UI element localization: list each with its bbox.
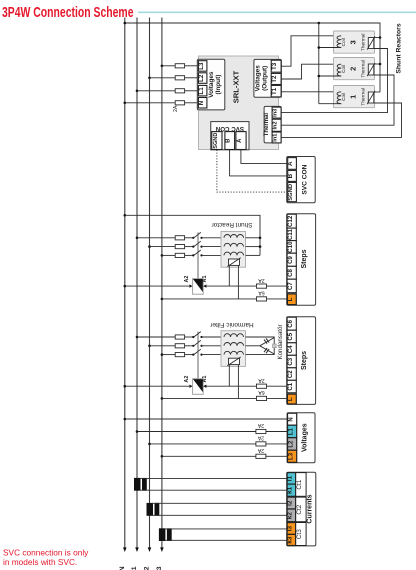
wire filter-step cap top (246, 337, 275, 355)
fuse filter-step 2A (256, 384, 266, 388)
terminal C4 (287, 343, 296, 356)
svg-text:6A: 6A (258, 389, 265, 395)
terminal N input (198, 98, 207, 109)
fuse input N (175, 101, 184, 105)
fuse input L2 (175, 76, 184, 80)
wire coil2 bottom to bus (319, 75, 341, 77)
svg-text:6A: 6A (258, 290, 265, 296)
wire filter-step L3 to L (161, 397, 288, 400)
wire coil1 bottom to bus (319, 103, 341, 105)
svg-text:L2: L2 (198, 74, 205, 82)
svg-text:C10: C10 (287, 241, 294, 253)
terminal A internal (236, 132, 246, 150)
wire k3 l3 (165, 529, 287, 540)
svg-text:l3: l3 (287, 526, 294, 532)
svg-text:k3: k3 (287, 536, 294, 544)
svg-text:C2: C2 (287, 370, 294, 378)
wire bus L2 (149, 18, 151, 549)
svg-text:Coil: Coil (341, 38, 347, 46)
label filter-step 2A (258, 377, 265, 383)
svg-text:T2: T2 (271, 75, 278, 83)
terminal C11 (287, 228, 296, 241)
label shunt-step 6A (258, 290, 265, 296)
wire thermal3 bottom to In (281, 49, 387, 113)
label Voltages Output (255, 65, 269, 92)
coil 1 (337, 92, 341, 104)
contactor coil shunt-step (193, 279, 204, 295)
label Ct3 (296, 523, 306, 546)
label SVC CON external (302, 164, 309, 194)
svg-text:(Output): (Output) (262, 66, 269, 91)
svg-text:Thermal: Thermal (360, 88, 366, 106)
terminal block Thermal (264, 106, 281, 142)
svg-text:2A: 2A (258, 277, 265, 283)
contactor contact shunt-step L1 (192, 232, 202, 239)
shunt reactor unit 2 box (334, 58, 375, 80)
svg-text:SVC connection is only: SVC connection is only (3, 547, 89, 557)
svg-text:Coil: Coil (341, 65, 347, 73)
terminal block Voltages Output (254, 59, 281, 97)
terminal L2 input (198, 73, 207, 84)
svg-text:Steps: Steps (301, 249, 308, 268)
label fuse 2A input (173, 105, 179, 112)
label L2 (144, 566, 151, 570)
svg-text:L2: L2 (288, 440, 294, 448)
node coil2 bus (318, 75, 321, 78)
terminal B external (287, 170, 296, 181)
wire T2 to coil2 (281, 64, 341, 79)
wire filter-step contact to coil L1 (202, 336, 225, 338)
svg-text:1: 1 (348, 95, 357, 99)
contactor contact shunt-step L3 (192, 250, 202, 257)
inductor filter-step 2 (224, 343, 244, 346)
svg-text:2: 2 (348, 67, 357, 71)
wire L3 to SRL input (161, 65, 198, 68)
svg-text:k1: k1 (287, 486, 294, 494)
terminal C9 (287, 253, 296, 266)
wire filter-step thermal left lead (228, 365, 230, 387)
node thermal3 tap (379, 36, 382, 39)
wire L1 to SRL input (136, 90, 198, 93)
svg-text:N: N (288, 417, 294, 421)
svg-text:k2: k2 (287, 512, 294, 520)
label filter-step A2 (184, 376, 190, 383)
label filter-step A1 (202, 376, 208, 383)
contactor contact shunt-step L2 (192, 241, 202, 248)
fuse filter-step L2 (175, 344, 184, 348)
wire coil3 bottom to bus (319, 47, 341, 49)
CT1 (134, 478, 147, 491)
label Thermal unit 1 (360, 88, 366, 106)
svg-text:C12: C12 (287, 215, 294, 227)
label Thermal unit 2 (360, 60, 366, 78)
terminal L3 input (198, 61, 207, 71)
terminal L2 voltages (288, 438, 297, 451)
terminal L step (287, 394, 296, 404)
reactor block filter-step box (221, 331, 246, 367)
wire thermal3 top (374, 37, 380, 39)
wire k2 l2 (152, 503, 287, 515)
svg-text:In3: In3 (273, 109, 279, 117)
terminal C7 (287, 279, 296, 293)
wire filter-step thermal right lead (237, 365, 239, 399)
wire shunt-step contact to coil L2 (202, 246, 225, 248)
fuse shunt-step 2A (256, 284, 266, 288)
reactor block shunt-step box (221, 232, 246, 268)
fuse input L1 (175, 89, 184, 93)
contactor coil filter-step (193, 379, 204, 395)
label filter-step (209, 321, 253, 328)
svg-text:In2: In2 (273, 121, 279, 129)
fuse shunt-step L1 (175, 236, 184, 240)
svg-text:Shunt Reactor: Shunt Reactor (211, 221, 253, 228)
wire top rail (124, 22, 381, 92)
module Steps box (287, 317, 316, 405)
wire bus L3 (161, 18, 163, 549)
svg-text:2A: 2A (173, 105, 179, 112)
module Steps box (287, 214, 316, 306)
label unit number 3 (348, 40, 357, 44)
terminal N voltages (288, 413, 297, 425)
terminal T2 (271, 73, 281, 84)
svg-text:C4: C4 (287, 345, 294, 353)
svg-text:C7: C7 (287, 282, 294, 290)
svg-text:3P4W Connection Scheme: 3P4W Connection Scheme (2, 4, 134, 21)
svg-text:Thermal: Thermal (360, 60, 366, 78)
CT2 (147, 503, 160, 516)
wire N to SRL input (124, 102, 198, 105)
fuse filter-step L1 (175, 335, 184, 339)
fuse shunt-step 6A (256, 297, 266, 301)
fuse shunt-step L2 (175, 245, 184, 249)
terminal L1 voltages (288, 425, 297, 438)
terminal In3 (272, 107, 281, 118)
label Voltages (301, 423, 308, 452)
arrow L2 (148, 547, 152, 552)
terminal L1 input (198, 85, 207, 96)
terminal l2 (287, 497, 296, 509)
svg-text:SGND: SGND (288, 184, 294, 201)
capacitor delta filter-step (260, 338, 276, 354)
label shunt-step A2 (184, 276, 190, 283)
wire thermal1 top (374, 91, 380, 93)
svg-text:SGND: SGND (213, 133, 219, 149)
thermal overload 2 (367, 63, 375, 76)
svg-text:l1: l1 (287, 475, 294, 481)
svg-text:L1: L1 (198, 87, 205, 95)
arrow L3 (160, 547, 164, 552)
wire L2 to voltages (148, 443, 287, 446)
label fuse L2 2A (257, 435, 264, 441)
svg-text:Thermal: Thermal (360, 34, 366, 52)
wire shunt-step branch L3 (161, 254, 194, 257)
svg-text:Ct1: Ct1 (296, 479, 303, 489)
terminal C6 (287, 317, 296, 330)
wire shunt-step N to A2 (124, 284, 193, 287)
inductor shunt-step 3 (224, 252, 244, 255)
terminal T3 (271, 60, 281, 72)
svg-text:A2: A2 (184, 276, 190, 283)
svg-text:C6: C6 (287, 319, 294, 327)
svg-text:2A: 2A (258, 377, 265, 383)
terminal C10 (287, 241, 296, 254)
terminal B internal (225, 132, 235, 150)
wire shunt-step star line (124, 214, 261, 255)
svg-text:3: 3 (348, 40, 357, 44)
svg-text:In1: In1 (273, 134, 279, 142)
node thermal2 tap (379, 63, 382, 66)
wire shunt-step contact to coil L3 (202, 254, 225, 256)
label shunt-step (211, 221, 253, 228)
svg-text:Harmonic Filter: Harmonic Filter (209, 321, 253, 328)
terminal C2 (287, 368, 296, 381)
label SVC CON internal (215, 125, 244, 132)
svg-text:L3: L3 (198, 62, 205, 70)
label unit number 2 (348, 67, 357, 71)
wire k1 l1 (140, 478, 287, 490)
fuse voltages L2 (256, 442, 266, 446)
svg-text:B: B (226, 138, 232, 143)
svg-text:Ct3: Ct3 (296, 529, 303, 539)
inductor shunt-step 1 (224, 235, 244, 238)
wire shunt-step A1 line (203, 284, 287, 287)
wire filter-step branch L3 (161, 353, 194, 356)
svg-text:Voltages: Voltages (255, 65, 262, 92)
terminal L3 voltages (288, 450, 297, 462)
inductor filter-step 3 (224, 351, 244, 354)
module SVC CON box (287, 157, 316, 203)
inductor filter-step 1 (224, 334, 244, 337)
wire thermal2 top (374, 63, 380, 65)
module Voltages box (287, 413, 315, 463)
thermal overload shunt-step (227, 258, 240, 267)
wire shunt-step coil out 3 (246, 254, 261, 256)
svg-text:Currents: Currents (306, 494, 313, 523)
node rail-coilbus (318, 22, 321, 25)
svg-text:L: L (287, 397, 294, 401)
wire L2 to SRL input (148, 77, 197, 80)
wire thermal1 bottom to In (281, 103, 401, 137)
title (2, 4, 134, 21)
svg-text:Kondansatör: Kondansatör (277, 324, 284, 359)
note SVC models (3, 547, 89, 567)
svg-text:A2: A2 (184, 376, 190, 383)
terminal C3 (287, 355, 296, 368)
fuse filter-step L3 (175, 353, 184, 357)
svg-text:Voltages: Voltages (301, 423, 308, 452)
label Steps (301, 249, 308, 268)
label SRL-XXT (231, 70, 240, 103)
label L3 (156, 566, 163, 570)
shunt reactor unit 3 box (334, 31, 375, 53)
controller SRL-XXT body (199, 56, 279, 150)
wire filter-step branch L2 (148, 345, 193, 348)
wire filter-step contact to coil L2 (202, 345, 225, 347)
wire bus N (124, 18, 126, 549)
terminal l3 (287, 523, 296, 535)
svg-text:SVC CON: SVC CON (215, 125, 244, 132)
svg-text:A1: A1 (202, 376, 208, 383)
label shunt-step A1 (202, 276, 208, 283)
coil 3 (337, 36, 341, 48)
wire T3 to coil3 (281, 36, 341, 66)
thermal overload filter-step (227, 357, 240, 366)
label Thermal block (264, 113, 270, 137)
wire B to SVC CON (230, 150, 287, 176)
svg-text:Voltages: Voltages (208, 71, 215, 98)
label Coil 2 (341, 65, 347, 73)
svg-text:L2: L2 (144, 566, 151, 570)
terminal k2 (287, 509, 296, 522)
fuse input L3 (175, 64, 184, 68)
svg-text:N: N (198, 100, 205, 105)
svg-text:C9: C9 (287, 255, 294, 263)
label Currents (306, 494, 313, 523)
terminal SGND external (288, 182, 297, 201)
CT3 (159, 528, 172, 541)
svg-text:B: B (287, 173, 294, 178)
wire shunt-step branch L2 (148, 245, 193, 248)
terminal C1 (287, 380, 296, 393)
wire bus L1 (136, 18, 138, 549)
node coil3 bus (318, 46, 321, 49)
wire coil common bus (318, 23, 320, 104)
svg-text:SVC CON: SVC CON (302, 164, 309, 194)
coil 2 (337, 64, 341, 76)
wire filter-step branch L1 (136, 336, 194, 339)
fuse voltages L3 (256, 454, 266, 458)
arrow N (123, 547, 127, 552)
label Coil 1 (341, 93, 347, 101)
fuse voltages L1 (256, 429, 266, 433)
wire L1 to voltages (136, 430, 287, 433)
svg-text:Steps: Steps (301, 351, 308, 370)
terminal SGND internal (212, 132, 222, 150)
svg-text:T1: T1 (271, 87, 278, 95)
svg-text:A: A (287, 161, 294, 166)
shunt reactor unit 1 box (334, 86, 375, 108)
wire N to voltages (124, 418, 288, 421)
wire T1 to coil1 (281, 91, 341, 93)
svg-text:L: L (287, 297, 294, 301)
terminal C8 (287, 266, 296, 279)
label filter-step 6A (258, 389, 265, 395)
svg-text:2A: 2A (257, 435, 264, 441)
label Ct1 (296, 473, 306, 497)
label N (119, 566, 126, 570)
svg-text:Coil: Coil (341, 93, 347, 101)
svg-text:(Input): (Input) (215, 75, 222, 95)
svg-text:C3: C3 (287, 357, 294, 365)
contactor contact filter-step L3 (192, 349, 202, 356)
inductor shunt-step 2 (224, 243, 244, 246)
label Voltages Input (208, 71, 222, 98)
svg-text:T3: T3 (271, 62, 278, 70)
wire filter-step cap mid (246, 345, 260, 347)
svg-text:L3: L3 (156, 566, 163, 570)
svg-text:2A: 2A (257, 422, 264, 428)
wire shunt-step coil out 2 (246, 245, 262, 248)
svg-text:C8: C8 (287, 268, 294, 276)
svg-text:l2: l2 (287, 500, 294, 506)
label Thermal unit 3 (360, 34, 366, 52)
label Steps (301, 351, 308, 370)
contactor contact filter-step L2 (192, 340, 202, 347)
wire shunt-step L3 to L (161, 298, 288, 301)
terminal L step (287, 294, 296, 305)
label Ct2 (296, 497, 306, 522)
svg-text:2A: 2A (257, 447, 264, 453)
terminal T1 (271, 85, 281, 97)
terminal In1 (272, 132, 281, 143)
terminal block SVC CON internal (211, 122, 249, 150)
svg-text:in models with SVC.: in models with SVC. (3, 557, 77, 567)
thermal overload 3 (367, 36, 375, 49)
wire shunt-step contact to coil L1 (202, 237, 225, 239)
wire shunt-step thermal right lead (237, 265, 239, 299)
wire shunt-step thermal left lead (228, 265, 230, 286)
label fuse L1 2A (257, 422, 264, 428)
wire shunt-step coil out 1 (246, 237, 262, 240)
svg-text:L1: L1 (131, 566, 138, 570)
module Currents box (287, 472, 316, 546)
wire thermal2 bottom to In (281, 75, 394, 125)
svg-text:L1: L1 (288, 427, 294, 435)
wire filter-step N to A2 (124, 385, 193, 388)
terminal l1 (287, 473, 296, 485)
svg-text:N: N (119, 566, 126, 570)
wire A to SVC CON (241, 150, 287, 164)
label Shunt Reactors (395, 23, 402, 73)
terminal In2 (272, 119, 281, 131)
svg-text:L3: L3 (288, 452, 294, 460)
thermal overload 1 (367, 91, 375, 104)
wire L3 to voltages (161, 455, 288, 458)
svg-text:A: A (237, 138, 243, 143)
terminal C5 (287, 330, 296, 343)
arrow L1 (135, 547, 139, 552)
terminal k3 (287, 534, 296, 545)
contactor linkage shunt-step (197, 232, 199, 278)
wire filter-step contact to coil L3 (202, 354, 225, 356)
contactor contact filter-step L1 (192, 332, 202, 339)
label shunt-step 2A (258, 277, 265, 283)
contactor linkage filter-step (197, 332, 199, 379)
svg-text:Shunt Reactors: Shunt Reactors (395, 23, 402, 73)
wire SGND to SVC CON (217, 150, 287, 192)
svg-text:SRL-XXT: SRL-XXT (231, 70, 240, 103)
terminal C12 (287, 214, 296, 228)
svg-text:Thermal: Thermal (264, 113, 270, 137)
wire filter-step A1 line (203, 385, 287, 388)
svg-text:C5: C5 (287, 332, 294, 340)
svg-text:C1: C1 (287, 382, 294, 390)
label unit number 1 (348, 95, 357, 99)
wire shunt-step branch L1 (136, 237, 194, 240)
terminal k1 (287, 484, 296, 496)
title rule (138, 11, 416, 13)
svg-text:C11: C11 (287, 229, 294, 240)
label Kondansator (277, 324, 284, 359)
label fuse L3 2A (257, 447, 264, 453)
fuse shunt-step L3 (175, 253, 184, 257)
terminal A external (287, 158, 296, 170)
terminal block Voltages Input (197, 59, 225, 110)
svg-text:A1: A1 (202, 276, 208, 283)
label Coil 3 (341, 38, 347, 46)
label L1 (131, 566, 138, 570)
fuse filter-step 6A (256, 396, 266, 400)
